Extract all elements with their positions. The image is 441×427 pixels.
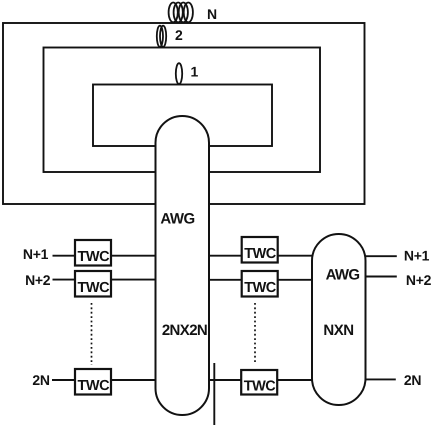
wire input row2 left (53, 279, 157, 281)
vertical tap line (213, 363, 215, 425)
wire input row1 left (53, 255, 157, 257)
coil 1 (1 loop) (176, 63, 182, 84)
svg-text:TWC: TWC (244, 280, 277, 296)
svg-text:TWC: TWC (78, 249, 111, 265)
TWC box R1 (242, 237, 278, 263)
svg-text:1: 1 (191, 64, 199, 80)
wire row2 middle (208, 279, 313, 281)
TWC box L1 (75, 240, 111, 266)
svg-text:N: N (207, 6, 217, 22)
svg-text:TWC: TWC (78, 280, 111, 296)
wire input row3 left (52, 379, 156, 381)
svg-text:N+2: N+2 (406, 272, 432, 288)
fiber delay loop 2 rectangle (44, 48, 321, 173)
dotted line right column (254, 303, 256, 364)
svg-text:N+1: N+1 (23, 246, 49, 262)
coil N (4 loops) (169, 3, 193, 23)
svg-text:N+2: N+2 (25, 272, 51, 288)
svg-text:2NX2N: 2NX2N (162, 322, 207, 339)
TWC box R3 (241, 370, 277, 395)
wire row1 middle (208, 255, 313, 257)
wire output row1 right (364, 255, 397, 257)
svg-text:2N: 2N (404, 372, 421, 388)
svg-text:AWG: AWG (160, 211, 194, 228)
AWG NXN capsule (312, 234, 366, 405)
svg-text:NXN: NXN (323, 322, 353, 339)
wire output row3 right (364, 378, 396, 380)
svg-text:N+1: N+1 (404, 248, 430, 264)
wire output row2 right (364, 276, 397, 278)
svg-text:2N: 2N (32, 372, 49, 388)
svg-text:TWC: TWC (244, 246, 277, 262)
TWC box L2 (75, 271, 111, 297)
dotted line left column (91, 303, 93, 365)
svg-text:2: 2 (175, 27, 183, 43)
AWG 2NX2N capsule (156, 116, 210, 415)
fiber delay loop 1 rectangle (93, 85, 272, 147)
TWC box L3 (75, 369, 111, 395)
wire row3 middle (208, 379, 313, 381)
coil 2 (2 loops) (157, 26, 166, 47)
fiber delay loop N rectangle (3, 23, 365, 204)
svg-text:AWG: AWG (326, 267, 360, 284)
TWC box R2 (242, 271, 278, 297)
svg-text:TWC: TWC (78, 378, 111, 394)
svg-text:TWC: TWC (244, 379, 277, 395)
